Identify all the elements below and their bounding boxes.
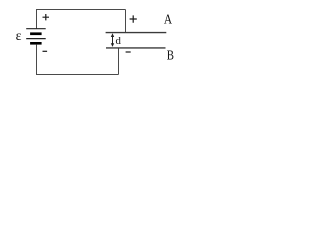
wire capacitor top lead vertical — [125, 10, 127, 33]
dimension arrow head down — [111, 43, 114, 47]
svg-text:ε: ε — [16, 29, 22, 44]
wire right vertical up to bottom plate — [118, 48, 120, 75]
dimension arrow d shaft — [112, 35, 114, 46]
svg-text:d: d — [115, 35, 121, 47]
battery cell E1 long plate — [26, 28, 46, 30]
svg-text:B: B — [167, 48, 174, 63]
capacitor bottom plate (terminal B line) — [106, 47, 166, 49]
label plus at battery — [43, 14, 50, 20]
dimension arrow head up — [111, 33, 114, 37]
battery cell E2 short thick plate — [30, 42, 41, 45]
label plus at capacitor top plate — [130, 15, 137, 22]
label minus at battery — [43, 50, 48, 52]
wire top horizontal from battery to capacitor drop — [37, 9, 126, 11]
battery cell E2 long plate — [26, 38, 46, 40]
capacitor top plate (terminal A line) — [106, 32, 167, 34]
svg-text:A: A — [164, 13, 173, 28]
wire bottom horizontal — [36, 74, 119, 76]
wire battery bottom lead — [36, 45, 38, 75]
wire battery top lead — [36, 9, 38, 29]
label minus at capacitor bottom plate — [126, 51, 131, 53]
battery cell E1 short thick plate — [30, 32, 41, 35]
